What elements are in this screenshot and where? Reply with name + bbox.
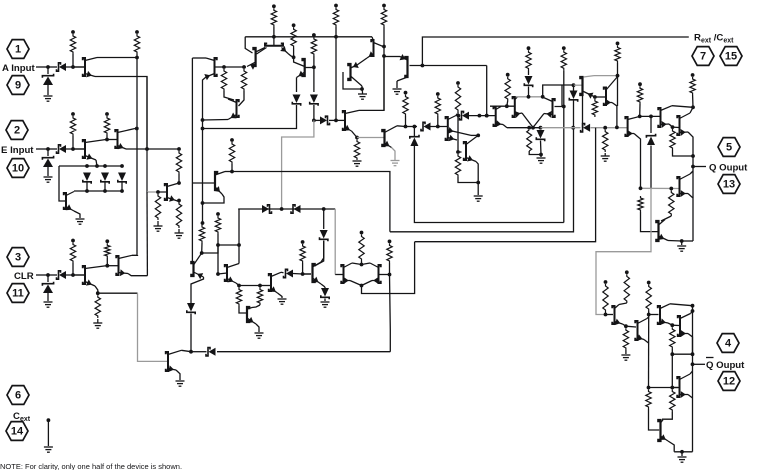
- ground Q31: [255, 332, 264, 334]
- transistor Q12: [371, 40, 373, 56]
- wire Qbar2 base: [649, 314, 659, 316]
- wire Q11 emitter: [352, 131, 358, 138]
- wire D9 down: [313, 105, 315, 120]
- transistor Q3: [115, 130, 117, 148]
- node x617 y75: [616, 74, 620, 78]
- wire Q40 emitter: [668, 323, 672, 325]
- node x218 y245: [216, 243, 220, 247]
- transistor Q18: [494, 107, 496, 126]
- node Q17 collector: [476, 134, 480, 138]
- wire Q8 base path: [245, 37, 252, 53]
- wire Q37 emitter: [128, 274, 147, 276]
- wire Q17 emitter down: [476, 162, 478, 183]
- wire y115.6 a: [456, 114, 460, 116]
- wire Q28 emitter down: [203, 194, 225, 203]
- node hub d: [85, 189, 89, 193]
- node x640 y188: [639, 186, 643, 190]
- ground Q17: [474, 195, 483, 197]
- node D15 bottom: [539, 153, 543, 157]
- wire clamp CLR: [47, 275, 49, 282]
- wire Q36 emitter: [95, 286, 98, 293]
- resistor R4: [104, 116, 109, 135]
- transistor Q16: [446, 117, 448, 140]
- long wire y171: [232, 172, 390, 232]
- schottky diode D18: [647, 137, 655, 146]
- wire R31 to Q27: [661, 216, 671, 221]
- wire R14 rail: [383, 27, 385, 110]
- wire D2 to ground: [47, 85, 49, 95]
- pin 12 hexagon: [718, 372, 740, 391]
- node hub f: [103, 189, 107, 193]
- resistor R15: [354, 140, 359, 161]
- wire D15 down: [540, 141, 543, 155]
- wire Q29 collector lead: [194, 253, 202, 265]
- svg-text:11: 11: [12, 288, 24, 300]
- transistor Q33: [313, 264, 315, 282]
- VCC stub R16: [404, 91, 408, 95]
- ground R46: [621, 354, 630, 356]
- schottky diode D19: [187, 303, 195, 312]
- VCC stub R47: [647, 281, 651, 285]
- wire D24 gnd: [324, 299, 326, 302]
- wire x218 down: [217, 245, 219, 274]
- wire Q43 collector lead: [661, 420, 664, 423]
- node Q21 emitter: [593, 95, 597, 99]
- wire Q14 collector lead: [351, 76, 363, 86]
- long wire y351: [217, 351, 390, 353]
- wire Q16e1 to node: [471, 134, 478, 136]
- wire R13 down: [335, 27, 337, 120]
- VCC stub R24: [562, 46, 566, 50]
- resistor R30: [690, 77, 695, 95]
- wire Q19 emitter: [522, 113, 533, 128]
- wire R47 down: [648, 311, 650, 315]
- transistor Q13: [382, 130, 384, 146]
- wire Q1 collector: [97, 57, 137, 59]
- node Q5 emitter: [177, 199, 181, 203]
- node Q collector bus: [691, 105, 695, 109]
- x324 drop: [323, 209, 325, 229]
- wire R37 to Q31 coll: [252, 305, 260, 308]
- gray base wire Q26: [641, 187, 680, 189]
- transistor Q30: [225, 265, 227, 281]
- wire R12 down: [313, 56, 315, 67]
- wire Q3 emitter: [126, 148, 147, 150]
- resistor R13: [333, 8, 338, 28]
- node Q5 base: [156, 190, 160, 194]
- wire y37 left segment: [245, 36, 274, 38]
- schottky diode D22: [291, 205, 295, 213]
- transistor Q32: [269, 274, 271, 291]
- ground Cext: [44, 446, 53, 448]
- node RB top: [242, 65, 246, 69]
- VCC stub R27: [616, 42, 620, 46]
- VCC stub R12: [312, 33, 316, 37]
- resistor R33: [229, 142, 234, 164]
- wire R32 to Q27 base: [641, 212, 659, 232]
- gray Q13 emitter: [392, 148, 396, 161]
- resistor R41: [70, 243, 75, 264]
- wire D11 top: [413, 127, 415, 137]
- wire Q14c down: [361, 86, 364, 92]
- node bus2 mid: [334, 119, 338, 123]
- ground Q38: [176, 380, 185, 382]
- wire Q33 base: [303, 273, 311, 275]
- node Q36 collector: [105, 264, 109, 268]
- schottky clamp diode D4: [43, 159, 53, 168]
- wire R44 down: [605, 312, 607, 315]
- node R41-base: [71, 273, 75, 277]
- transistor Q5: [165, 184, 167, 200]
- wire R28 down: [639, 104, 641, 116]
- wire Q43 emitter down: [668, 441, 674, 452]
- node Q14 b-c: [360, 87, 364, 91]
- resistor R5: [176, 151, 181, 174]
- wire R42 down: [106, 258, 108, 266]
- wire Q29 emitter rail: [191, 277, 204, 303]
- transistor Q21 (pnp): [580, 77, 582, 95]
- node Q11 emitter: [355, 136, 359, 140]
- wire collector feed TL: [192, 57, 206, 59]
- wire Q44 base: [672, 387, 679, 389]
- Cext terminal dot: [47, 418, 51, 422]
- wire Q24 collector: [672, 106, 693, 108]
- wire Q34 emitter: [350, 281, 362, 286]
- wire Q20 base feed: [555, 85, 563, 107]
- resistor R37: [257, 288, 262, 306]
- node x239 y245: [237, 243, 241, 247]
- transistor Q10: [303, 59, 305, 76]
- ground R15: [353, 160, 362, 162]
- node Ta collector: [200, 251, 204, 255]
- ground R43: [97, 319, 99, 323]
- wire gnd bus: [674, 451, 692, 453]
- input transistor Q2: [83, 140, 85, 158]
- wire bus2 seg2: [336, 119, 345, 121]
- wire y37 to Q12 base: [336, 36, 372, 38]
- wire Qbar tap: [693, 363, 706, 365]
- transistor Q15 (pnp): [405, 57, 407, 77]
- wire x486 down: [486, 66, 488, 116]
- wire Q11 collector: [359, 56, 384, 110]
- node gndrail: [476, 181, 480, 185]
- pin 13 hexagon: [718, 175, 740, 194]
- anti-sat diode bus top: [59, 165, 122, 167]
- input transistor Q1: [83, 58, 85, 76]
- pin 11 hexagon: [7, 284, 29, 303]
- schottky diode D7: [118, 173, 126, 182]
- schottky diode D10: [326, 116, 330, 124]
- node y115 a: [457, 114, 461, 118]
- node hub e: [95, 164, 99, 168]
- node y285 a: [237, 284, 241, 288]
- pin 6 hexagon: [7, 386, 29, 405]
- VCC stub R10: [272, 4, 276, 8]
- pin 9 hexagon: [7, 76, 29, 95]
- node bus y209 right: [322, 207, 326, 211]
- wire clamp E: [47, 149, 49, 156]
- ground D24: [321, 301, 330, 303]
- wire A-input to node: [36, 66, 48, 68]
- resistor R11: [291, 27, 296, 48]
- svg-text:15: 15: [725, 51, 737, 63]
- wire Q8 collector: [256, 48, 265, 53]
- wire Q18 emitter wire: [503, 125, 507, 128]
- node R23 top: [527, 126, 531, 130]
- svg-text:Q Ouput: Q Ouput: [709, 163, 748, 174]
- wire Q17 base: [458, 151, 462, 153]
- resistor R3: [70, 116, 75, 136]
- wire x218-x239: [218, 244, 239, 246]
- ground E clamp: [44, 176, 53, 178]
- VCC stub R22: [527, 46, 531, 50]
- wire Q9 base: [273, 37, 275, 46]
- schottky diode D25: [206, 348, 210, 356]
- schottky diode D12: [421, 122, 425, 130]
- wire Q8 emitter: [247, 62, 256, 67]
- resistor R31: [669, 191, 674, 217]
- resistor R25: [603, 130, 608, 152]
- wire D11 down net: [414, 146, 563, 223]
- node D19-bus: [189, 350, 193, 354]
- wire node to diode D1: [48, 66, 57, 68]
- pin 2 hexagon: [6, 121, 28, 140]
- wire Q27 emitter to gnd node: [668, 240, 682, 243]
- resistor R9: [241, 69, 246, 91]
- wire Q12 emitter to Q14: [357, 58, 367, 65]
- node rail y354: [691, 352, 695, 356]
- node Q5 collector: [177, 181, 181, 185]
- wire Q39 emitter: [623, 324, 626, 326]
- wire Q10 emitter lead: [297, 72, 305, 78]
- wire Q43 emitter lead: [661, 436, 669, 441]
- anti-sat diode bus bottom: [74, 190, 122, 192]
- transistor Q41: [635, 321, 637, 340]
- wire rail x202 down: [202, 120, 204, 223]
- resistor R1: [70, 34, 75, 54]
- wire gnd stub: [681, 241, 683, 245]
- schottky diode D24: [321, 288, 329, 297]
- VCC stub R38: [301, 240, 305, 244]
- resistor R19: [455, 154, 460, 177]
- node Q output tap: [691, 165, 695, 169]
- wire y127.7 left: [507, 127, 541, 129]
- wire D25 to node: [191, 351, 207, 353]
- ground D15: [537, 157, 546, 159]
- VCC stub R39: [360, 231, 364, 235]
- node gnd Q27: [680, 239, 684, 243]
- wire R41node: [73, 274, 85, 276]
- VCC stub R40: [388, 240, 392, 244]
- schottky diode D15: [537, 130, 545, 139]
- wire Q41 collector: [647, 317, 649, 319]
- gray Qbar feed: [596, 188, 651, 314]
- wire Q22 base: [595, 96, 606, 98]
- bus right drop gray: [334, 209, 336, 275]
- wire Q26 emitter: [688, 194, 693, 242]
- wire Q40e to Q42 base: [672, 324, 679, 326]
- wire Q38 collector: [181, 350, 191, 351]
- node R29 junction: [691, 154, 695, 158]
- ground R25: [604, 153, 606, 156]
- VCC stub R13: [334, 4, 338, 8]
- VCC stub R11: [292, 23, 296, 27]
- tail wire: [362, 242, 415, 294]
- VCC stub R35: [216, 212, 220, 216]
- node R5 top: [177, 147, 181, 151]
- node x147-149: [145, 147, 149, 151]
- node bus2 left: [312, 119, 316, 123]
- wire Q32 emitter: [278, 293, 283, 298]
- svg-text:12: 12: [723, 376, 735, 388]
- transistor Q19: [513, 97, 515, 117]
- wire R34 down: [201, 243, 203, 253]
- wire y116 bus: [640, 115, 661, 117]
- schottky diode D13: [460, 111, 464, 119]
- node y115 b: [478, 114, 482, 118]
- pin 14 hexagon: [6, 422, 28, 441]
- elbow wire: [543, 85, 574, 97]
- transistor Q43: [658, 420, 660, 441]
- resistor R18: [455, 85, 460, 112]
- wire gnd stub2: [681, 452, 683, 456]
- schottky diode D5: [83, 173, 91, 182]
- wire R19 to gnd rail: [458, 177, 478, 183]
- node x617 y127: [615, 126, 619, 130]
- wire node to diode D3: [48, 148, 57, 150]
- wire R33 down: [231, 164, 233, 172]
- resistor R43: [95, 295, 100, 318]
- transistor Q28: [215, 172, 217, 190]
- resistor R39: [359, 235, 364, 262]
- node x672 y387: [670, 386, 674, 390]
- wire Q4 emitter: [74, 211, 80, 218]
- wire R35 down: [217, 234, 219, 245]
- VCC stub R3: [71, 112, 75, 116]
- node hub b: [103, 164, 107, 168]
- svg-text:3: 3: [15, 252, 21, 264]
- wire Q25 base: [673, 126, 680, 128]
- wire Q19 base: [490, 105, 515, 107]
- svg-text:Q Ouput: Q Ouput: [706, 360, 745, 371]
- wire Q1 emitter: [95, 77, 147, 150]
- wire R10 down: [273, 27, 275, 37]
- transistor Q31: [247, 307, 249, 322]
- schottky clamp diode D2: [43, 77, 53, 86]
- wire Q31 emitter lead: [247, 318, 256, 324]
- node x573 y85: [572, 83, 576, 87]
- wire Q29 emitter lead: [194, 272, 204, 277]
- wire Q16 emitter2: [448, 130, 471, 135]
- node Q20 base tap: [562, 105, 566, 109]
- node D15 top: [539, 126, 543, 130]
- wire Q27 collector lead: [659, 220, 666, 226]
- VCC stub R14: [382, 4, 386, 8]
- wire Q38 emitter: [176, 370, 180, 380]
- node Q17 base tap: [456, 150, 460, 154]
- wire Q9e to node: [288, 54, 294, 58]
- wire Q33 emitter: [321, 284, 325, 287]
- VCC stub R42: [105, 239, 109, 243]
- wire Q9 emitter: [282, 48, 289, 54]
- node Q34Q35 emitters: [360, 284, 364, 288]
- wire R39 down: [361, 261, 363, 265]
- resistor R7: [176, 202, 181, 228]
- wire x314 down: [313, 67, 315, 92]
- wire x384 to Q15: [384, 56, 400, 58]
- wire Q32 collector to D20: [281, 271, 284, 274]
- resistor R22: [526, 50, 531, 70]
- transistor Q6: [215, 58, 217, 76]
- wire Q7 emitter: [203, 119, 229, 122]
- node R1-base: [71, 65, 75, 69]
- wire R27 rail: [617, 63, 619, 106]
- svg-text:13: 13: [723, 179, 735, 191]
- transistor Q4: [64, 193, 66, 209]
- transistor Q38: [166, 352, 168, 371]
- VCC stub R4: [105, 112, 109, 116]
- ground Q14: [362, 92, 364, 94]
- node y171 left: [230, 170, 234, 174]
- wire R45 to Q39 coll: [619, 303, 627, 305]
- ground R6: [157, 221, 159, 226]
- wire R18 to junction: [457, 112, 459, 152]
- VCC stub R30: [691, 73, 695, 77]
- D23 to Q33: [315, 241, 324, 267]
- wire R48 down: [671, 349, 673, 354]
- wire Q21 collector lead: [583, 76, 594, 77]
- wire Q13 emitter lead: [385, 143, 392, 148]
- resistor R34: [199, 225, 204, 243]
- node A-input: [46, 65, 50, 69]
- node Q2 collector: [105, 138, 109, 142]
- schottky diode D16: [570, 91, 578, 100]
- node Q10 base: [312, 65, 316, 69]
- VCC stub R28: [638, 82, 642, 86]
- wire Q42 emitter: [688, 334, 693, 355]
- transistor Q22: [604, 88, 606, 106]
- wire Q44 collector: [690, 371, 693, 374]
- wire x693 rail mid: [692, 306, 694, 452]
- gray tap x147: [147, 191, 158, 193]
- wire Q15 base gnd: [396, 81, 398, 88]
- wire Q35 base: [379, 274, 390, 276]
- Cext wire: [47, 420, 49, 446]
- wire clamp: [47, 67, 49, 74]
- schottky diode D11: [410, 138, 418, 147]
- node x486 bus: [485, 114, 489, 118]
- transistor Q42: [678, 316, 680, 336]
- transistor Q40: [658, 306, 660, 324]
- wire R41 to node: [72, 263, 74, 275]
- node R48 bottom: [670, 352, 674, 356]
- wire x651 top: [650, 116, 652, 133]
- VCC stub R2: [135, 30, 139, 34]
- wire Q2 emitter down: [96, 160, 97, 166]
- node Q10 collector: [292, 55, 296, 59]
- wire D20 to node: [293, 273, 303, 276]
- schottky clamp diode D27: [43, 285, 53, 294]
- wire node to Q10c: [294, 57, 305, 66]
- node gnd bus: [680, 450, 684, 454]
- gray wire y127.7 c: [591, 127, 628, 129]
- wire y37 into Q12: [372, 37, 374, 41]
- wire Q28 base lead: [192, 182, 215, 184]
- ground Q32: [278, 298, 287, 300]
- wire x390 down: [389, 275, 392, 352]
- wire R3node: [73, 148, 85, 150]
- resistor R28: [637, 86, 642, 104]
